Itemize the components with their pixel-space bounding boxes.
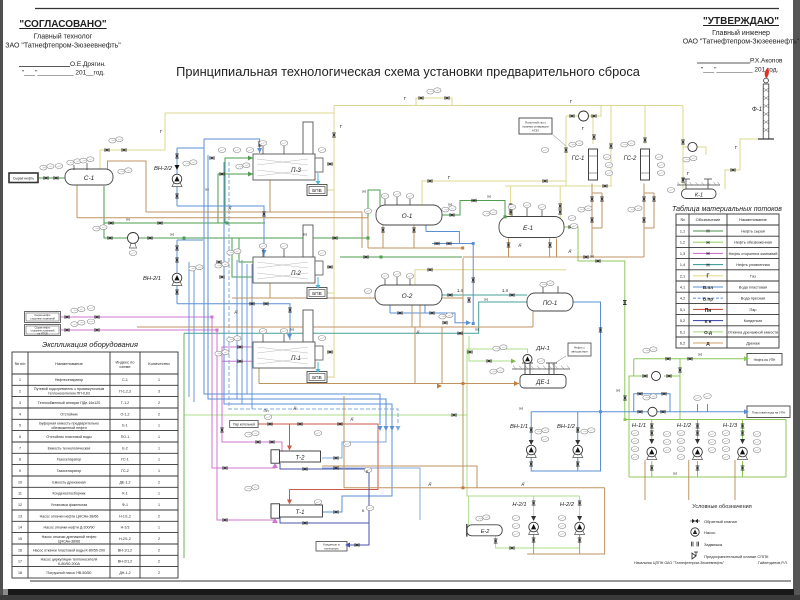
- svg-text:4,1: 4,1: [680, 286, 685, 290]
- node BPV box of P-3: [307, 185, 327, 196]
- node BPV box of P-1: [307, 372, 327, 383]
- svg-text:2: 2: [19, 390, 21, 394]
- svg-text:П-3: П-3: [291, 168, 301, 174]
- wire P-2 oil inlets: [232, 238, 253, 277]
- wire fresh water bus L4: [229, 162, 398, 425]
- svg-text:ГС-1: ГС-1: [121, 458, 129, 462]
- svg-text:Д: Д: [416, 329, 420, 334]
- svg-text:Н: Н: [519, 406, 522, 411]
- svg-text:"УТВЕРЖДАЮ": "УТВЕРЖДАЮ": [703, 16, 779, 27]
- svg-text:на УПСВ: на УПСВ: [37, 332, 48, 335]
- svg-text:Д: Д: [568, 248, 572, 253]
- wire PO-1 trapped oil return: [184, 302, 527, 333]
- svg-text:№: №: [680, 217, 684, 222]
- heat exchanger T-1: [271, 504, 323, 518]
- wire fuel gas riser to heaters: [333, 106, 335, 379]
- svg-text:Н: Н: [484, 297, 487, 302]
- svg-text:Конденсат: Конденсат: [744, 319, 763, 323]
- wire C-1 drain: [76, 185, 78, 218]
- wire box2 to T-1: [61, 330, 276, 521]
- wire main drain riser: [462, 258, 464, 488]
- svg-text:11: 11: [18, 492, 22, 496]
- svg-text:Сырая нефть: Сырая нефть: [13, 177, 34, 181]
- wire drain trunk y218: [77, 218, 368, 248]
- svg-text:Е-2: Е-2: [481, 529, 490, 535]
- svg-text:6: 6: [19, 435, 21, 439]
- wire gas header B: [100, 113, 334, 150]
- svg-text:1.п: 1.п: [502, 288, 509, 293]
- wire heater water bus L2: [208, 155, 386, 425]
- svg-text:ВН-1/2: ВН-1/2: [557, 424, 576, 430]
- wire E-1 drains: [463, 238, 644, 257]
- svg-text:1,3: 1,3: [680, 252, 685, 256]
- svg-text:Н: Н: [590, 254, 593, 259]
- svg-text:Н-1/1: Н-1/1: [632, 423, 646, 429]
- svg-text:О-1: О-1: [402, 213, 413, 220]
- svg-text:обезвоженной нефти: обезвоженной нефти: [51, 426, 86, 430]
- svg-text:Принципиальная технологическая: Принципиальная технологическая схема уст…: [176, 64, 641, 79]
- svg-text:18: 18: [18, 571, 22, 575]
- svg-text:Насос откачки нефти Д-200/90: Насос откачки нефти Д-200/90: [44, 526, 95, 530]
- svg-text:Р.Х.Акопов: Р.Х.Акопов: [750, 58, 783, 65]
- svg-text:2: 2: [158, 560, 160, 564]
- svg-text:Н-1/3: Н-1/3: [121, 526, 130, 530]
- svg-text:Т-1,2: Т-1,2: [121, 401, 129, 405]
- svg-text:5,1: 5,1: [680, 308, 685, 312]
- wire C-1 gas offtake: [99, 150, 101, 171]
- wire meter bypass loop: [634, 394, 670, 412]
- svg-text:Насос откачки нефти ЦНСАн-38/6: Насос откачки нефти ЦНСАн-38/66: [40, 514, 99, 518]
- svg-text:теплоносителем ПП-0,63: теплоносителем ПП-0,63: [48, 392, 90, 396]
- svg-text:Г: Г: [707, 274, 710, 280]
- svg-text:Н: Н: [448, 202, 451, 207]
- stream sample lines: [693, 231, 723, 343]
- tank E-2: [467, 525, 502, 536]
- legend gate valve: [692, 542, 699, 547]
- wire P-3 drain: [269, 180, 271, 212]
- wire O-2 water out: [390, 305, 470, 323]
- svg-text:Ф-1: Ф-1: [752, 107, 762, 113]
- nozzle stems: [74, 146, 558, 342]
- wire N-2 suction drops: [534, 496, 580, 520]
- wire VN-2/1 top link: [177, 239, 203, 241]
- svg-text:Таблица материальных потоков: Таблица материальных потоков: [672, 205, 782, 213]
- wire trapped oil drop: [183, 333, 185, 558]
- svg-text:1: 1: [158, 458, 160, 462]
- settler O-2: [375, 285, 442, 305]
- wire oil line under O-1: [340, 256, 462, 258]
- svg-text:Отстойник: Отстойник: [60, 412, 78, 416]
- legend pump: [691, 528, 699, 536]
- wire VN-1 discharge: [531, 412, 600, 471]
- svg-text:Насос: Насос: [704, 530, 715, 535]
- gas separator GS-1: [589, 149, 598, 180]
- wire T-2 outlet riser to P-1: [222, 347, 282, 451]
- svg-text:О-1,2: О-1,2: [121, 412, 130, 416]
- wire DN-1 suction: [469, 336, 511, 361]
- svg-text:Н-1/2: Н-1/2: [677, 423, 692, 429]
- wire oil to UPN line: [634, 358, 744, 360]
- svg-text:Вода пресная: Вода пресная: [741, 297, 765, 301]
- wire VN-2/2 circulation: [176, 148, 178, 206]
- wire O-1 gas: [415, 181, 566, 285]
- svg-text:Д: Д: [234, 309, 238, 314]
- svg-text:1.п: 1.п: [457, 288, 464, 293]
- pump N-1/1: [647, 447, 657, 459]
- svg-text:автоцистерн: автоцистерн: [571, 350, 588, 354]
- wire gas stub to BPV blocks: [327, 190, 334, 377]
- wire E-2 feed: [468, 496, 470, 525]
- svg-text:Емкость технологическая: Емкость технологическая: [48, 446, 91, 450]
- wire N-2 bottom stubs: [534, 534, 580, 548]
- valves on vertical runs: [175, 133, 744, 543]
- svg-text:Д: Д: [518, 242, 522, 247]
- svg-text:Пн: Пн: [263, 408, 268, 413]
- svg-text:12: 12: [18, 503, 22, 507]
- small grey D drain labels: [228, 205, 572, 486]
- wire P-1 teplo feed: [177, 300, 290, 340]
- wire N-1 suction manifold: [625, 420, 786, 478]
- wire O-1 water out: [426, 224, 473, 324]
- node oil to UPN box: [747, 354, 782, 366]
- header right approval block: [683, 16, 800, 74]
- svg-text:ВН-1/1: ВН-1/1: [510, 424, 528, 430]
- wire steam drop T-2: [289, 424, 291, 446]
- svg-text:Предохранительный клапан СППК: Предохранительный клапан СППК: [704, 554, 769, 559]
- svg-text:Н-2/1,2: Н-2/1,2: [119, 537, 131, 541]
- svg-text:15: 15: [18, 537, 22, 541]
- svg-text:БПВ: БПВ: [312, 291, 321, 296]
- svg-text:ДЕ-1,2: ДЕ-1,2: [119, 480, 130, 484]
- svg-text:2,1: 2,1: [680, 274, 685, 278]
- svg-text:№ п/п: № п/п: [15, 361, 26, 366]
- svg-text:1,1: 1,1: [680, 230, 685, 234]
- wire steam main: [258, 424, 378, 490]
- svg-text:6,2: 6,2: [680, 342, 685, 346]
- wire gas to K-1: [682, 106, 684, 190]
- wire N-1 pump drains: [645, 460, 735, 500]
- pump N-1/3: [738, 447, 748, 459]
- svg-text:1: 1: [158, 492, 160, 496]
- svg-text:Е-2: Е-2: [122, 446, 128, 450]
- svg-text:Н: Н: [698, 352, 701, 357]
- flare stack F-1: [752, 68, 774, 140]
- wire box1 to T-2: [61, 317, 276, 468]
- svg-text:ПО-1: ПО-1: [543, 301, 557, 307]
- pump VN-1/1: [526, 445, 536, 457]
- node truck unload box: [568, 343, 591, 356]
- wire P-3 return: [177, 206, 264, 257]
- wire E-2 bottom out: [496, 536, 580, 548]
- svg-text:Д: Д: [428, 481, 432, 486]
- svg-text:ГС-2: ГС-2: [121, 469, 129, 473]
- buffer tank E-1: [499, 217, 564, 238]
- legend relief valve SPPK: [692, 552, 698, 559]
- svg-text:Наименование: Наименование: [739, 217, 768, 222]
- wire VN-2/1 circulation: [176, 240, 178, 300]
- svg-text:Газосепаратор: Газосепаратор: [57, 458, 82, 462]
- svg-text:ДЕ-1: ДЕ-1: [535, 380, 550, 386]
- svg-text:Насос откачки дренажной нефти: Насос откачки дренажной нефти: [42, 535, 97, 539]
- pump N-1/2: [693, 447, 703, 459]
- svg-text:1: 1: [158, 378, 160, 382]
- svg-text:Нефть обезвоженная: Нефть обезвоженная: [734, 241, 772, 245]
- svg-text:7: 7: [19, 446, 21, 450]
- wire C-1 oil out: [104, 186, 380, 238]
- svg-text:Погружной насос НВ-50/50: Погружной насос НВ-50/50: [47, 571, 92, 575]
- svg-text:ДН-1,2: ДН-1,2: [119, 571, 130, 575]
- valves on horizontal runs: [44, 96, 735, 550]
- pump water meter: [648, 407, 657, 416]
- svg-text:1: 1: [158, 526, 160, 530]
- pump N-2/2: [575, 522, 585, 534]
- svg-text:Наименование: Наименование: [55, 361, 84, 366]
- svg-text:1: 1: [19, 378, 21, 382]
- heater P-2: [253, 225, 323, 283]
- svg-text:П-1: П-1: [291, 356, 301, 362]
- wire heater P-3 outlet: [327, 164, 334, 352]
- wire O-2 to PO-1: [442, 294, 527, 296]
- wire PO-1 water out: [573, 302, 601, 412]
- svg-text:Обозначение: Обозначение: [696, 217, 722, 222]
- svg-text:4,2: 4,2: [680, 297, 685, 301]
- svg-text:Д: Д: [293, 405, 297, 410]
- svg-text:17: 17: [18, 560, 22, 564]
- wire drain trunk y212: [108, 161, 363, 248]
- wire VN-1 suction manifold: [531, 411, 600, 413]
- svg-text:Н-2/2: Н-2/2: [560, 502, 575, 508]
- settler O-1: [376, 205, 442, 225]
- pump VN-2/1: [172, 273, 182, 285]
- pump N-2/1: [529, 522, 539, 534]
- svg-text:Количество: Количество: [148, 361, 170, 366]
- svg-text:Ф-1: Ф-1: [122, 503, 128, 507]
- svg-text:К-80/50-200А: К-80/50-200А: [58, 562, 80, 566]
- wire gas branch to compressor: [683, 147, 706, 155]
- pump VN-1/2: [573, 445, 583, 457]
- wire T-1 water feed: [322, 425, 392, 512]
- svg-text:Начальник ЦППН ОАО "Татнефтеп: Начальник ЦППН ОАО "Татнефтепром-Зюзеевн…: [634, 561, 725, 565]
- wire T-2 water feed: [322, 425, 386, 458]
- node condensate to boiler box: [316, 542, 347, 552]
- svg-text:Н: Н: [126, 217, 129, 222]
- svg-text:1: 1: [158, 446, 160, 450]
- svg-text:9: 9: [19, 469, 21, 473]
- svg-text:13: 13: [18, 514, 22, 518]
- svg-text:"СОГЛАСОВАНО": "СОГЛАСОВАНО": [19, 19, 107, 30]
- drain tank DE-1: [512, 363, 570, 388]
- svg-text:Н: Н: [487, 194, 490, 199]
- svg-text:Е-1: Е-1: [122, 424, 128, 428]
- svg-text:Пар: Пар: [750, 308, 757, 312]
- svg-text:Отстойник пластовой воды: Отстойник пластовой воды: [46, 435, 92, 439]
- svg-text:Дренаж: Дренаж: [746, 342, 760, 346]
- wire GS-1 gas top: [566, 106, 611, 187]
- wire T drain: [322, 466, 477, 488]
- svg-text:2: 2: [158, 412, 160, 416]
- material streams table: [676, 214, 779, 348]
- svg-text:сторонних компаний: сторонних компаний: [30, 316, 55, 320]
- svg-text:1: 1: [158, 503, 160, 507]
- separator C-1: [65, 169, 113, 185]
- svg-text:Н: Н: [205, 187, 208, 192]
- svg-text:Е-1: Е-1: [523, 225, 534, 232]
- svg-text:Пар котельной: Пар котельной: [233, 422, 255, 426]
- pump oil blower: [128, 233, 139, 249]
- wire P-2 drain: [232, 283, 463, 298]
- svg-text:1: 1: [158, 424, 160, 428]
- svg-text:1,2: 1,2: [680, 241, 685, 245]
- node raw oil feed box: [9, 173, 38, 183]
- svg-text:П-2: П-2: [291, 271, 301, 277]
- svg-text:Насос циркуляции теплоносителя: Насос циркуляции теплоносителя: [41, 557, 98, 561]
- svg-text:Емкость дренажная: Емкость дренажная: [52, 480, 85, 484]
- svg-text:6,1: 6,1: [680, 330, 685, 334]
- pump gas compressor: [688, 142, 697, 151]
- svg-text:Пластовая вода на УПН: Пластовая вода на УПН: [752, 410, 786, 414]
- svg-text:2: 2: [158, 548, 160, 552]
- node water to UPN box: [747, 406, 790, 418]
- pump VN-2/2: [172, 174, 182, 186]
- svg-text:Главный инженер: Главный инженер: [712, 29, 770, 37]
- wire VN-1 suction drops: [531, 412, 578, 444]
- svg-text:ГС-2: ГС-2: [624, 156, 637, 162]
- svg-text:Гайнетдинов Р.Л.: Гайнетдинов Р.Л.: [758, 561, 788, 565]
- wire steam drop T-1: [289, 490, 291, 501]
- svg-text:4: 4: [19, 412, 21, 416]
- svg-text:1: 1: [158, 469, 160, 473]
- svg-text:ПО-1: ПО-1: [121, 435, 130, 439]
- condensate drum K-1: [677, 179, 720, 199]
- svg-text:Д: Д: [521, 481, 525, 486]
- svg-text:Н: Н: [290, 327, 293, 332]
- svg-text:К-1: К-1: [695, 193, 703, 199]
- svg-text:ЦНСАн-38/66: ЦНСАн-38/66: [58, 539, 80, 543]
- wire VN-2/2 to P-3: [177, 139, 260, 153]
- svg-text:Обратный клапан: Обратный клапан: [704, 519, 737, 524]
- wire N-1 pump discharge drops: [652, 461, 743, 477]
- wire E-1 gas: [505, 186, 612, 220]
- svg-text:Н: Н: [673, 471, 676, 476]
- svg-text:Сырая нефть: Сырая нефть: [34, 313, 51, 317]
- svg-text:Экспликация оборудования: Экспликация оборудования: [42, 340, 138, 349]
- svg-text:Газ: Газ: [750, 274, 756, 278]
- svg-text:Задвижка: Задвижка: [704, 542, 723, 547]
- svg-text:14: 14: [18, 526, 22, 530]
- svg-text:1: 1: [158, 435, 160, 439]
- node steam from boiler box: [230, 421, 258, 428]
- wire K-1 to flare: [725, 139, 762, 189]
- svg-text:2: 2: [158, 480, 160, 484]
- wire instrument stubs: [698, 404, 708, 412]
- wire GS-1 drain: [592, 184, 602, 258]
- svg-text:Буферная емкость предварительн: Буферная емкость предварительно: [39, 421, 99, 425]
- svg-text:2: 2: [158, 571, 160, 575]
- svg-text:Нефть на УПН: Нефть на УПН: [754, 358, 776, 362]
- wire E-1 out to N-1 riser: [564, 227, 625, 420]
- BOTTOM BLACK BAR: [8, 589, 794, 600]
- pump gas blower: [579, 111, 589, 121]
- svg-text:5: 5: [19, 424, 21, 428]
- svg-text:ВН-1/1,2: ВН-1/1,2: [118, 548, 132, 552]
- svg-text:Т-2: Т-2: [296, 456, 306, 462]
- svg-text:БПВ: БПВ: [312, 375, 321, 380]
- equipment list table: [12, 352, 178, 578]
- svg-text:котельную: котельную: [324, 547, 339, 551]
- svg-text:2: 2: [158, 537, 160, 541]
- wire extra teplo bus lines: [189, 260, 252, 409]
- svg-text:Главный технолог: Главный технолог: [34, 33, 93, 41]
- BPV cyan feeds: [317, 173, 319, 369]
- svg-text:ОАО "Татнефтепром-Зюзеевнефть": ОАО "Татнефтепром-Зюзеевнефть": [683, 39, 800, 46]
- wire GS-2 drain: [644, 184, 654, 258]
- svg-text:Д: Д: [228, 205, 232, 210]
- wire GS-2 gas top: [644, 106, 646, 145]
- pump oil meter: [652, 372, 661, 381]
- svg-text:Условные обозначения: Условные обозначения: [692, 504, 751, 510]
- svg-text:О.д: О.д: [704, 330, 712, 335]
- svg-text:Теплообменный аппарат ПДн-16х1: Теплообменный аппарат ПДн-16х120: [38, 401, 101, 405]
- wire heater water bus L3: [224, 162, 392, 425]
- svg-text:В.пр: В.пр: [703, 296, 713, 301]
- wire O-1 drains: [368, 224, 463, 248]
- wire N-1 pump suction drops: [652, 420, 743, 444]
- svg-text:ДН-1: ДН-1: [535, 346, 549, 352]
- top frame line: [35, 8, 779, 10]
- svg-text:Д: Д: [350, 416, 354, 421]
- svg-text:ГС-1: ГС-1: [572, 156, 585, 162]
- water settler PO-1: [527, 293, 573, 311]
- pump DN-1 submersible: [523, 355, 532, 364]
- svg-text:Н: Н: [616, 388, 619, 393]
- svg-text:"___"__________ 201__год.: "___"__________ 201__год.: [22, 70, 105, 77]
- svg-text:Насос откачки пластовой воды К: Насос откачки пластовой воды К-80/50-200: [33, 548, 105, 552]
- svg-text:Нефть сырая: Нефть сырая: [741, 230, 765, 234]
- wire oil branch to heaters bus: [104, 222, 265, 224]
- svg-text:Т-1: Т-1: [296, 510, 305, 516]
- wire heater water bus L1: [204, 139, 380, 425]
- LEFT EDGE STRIP: [0, 0, 3, 600]
- svg-text:В.пл: В.пл: [703, 285, 713, 290]
- svg-text:Н-1/1,2: Н-1/1,2: [119, 514, 131, 518]
- wire discharge riser with meter loop: [629, 359, 680, 477]
- node third-party oil box 2: [25, 325, 61, 336]
- svg-text:Установка факельная: Установка факельная: [51, 503, 87, 507]
- svg-text:Н: Н: [303, 232, 306, 237]
- svg-text:Нефтесепаратор: Нефтесепаратор: [55, 378, 83, 382]
- svg-text:Нефть уловленная: Нефть уловленная: [736, 263, 769, 267]
- svg-text:О.Е.Дрягин.: О.Е.Дрягин.: [70, 61, 106, 68]
- svg-text:2: 2: [158, 514, 160, 518]
- wire drain trunk bottom: [344, 396, 605, 488]
- svg-text:АГЗУ: АГЗУ: [532, 129, 539, 133]
- svg-text:ВН-2/2: ВН-2/2: [154, 166, 173, 172]
- svg-text:К н: К н: [705, 319, 712, 324]
- node third-party oil box 1: [25, 312, 61, 323]
- svg-text:Конденсатосборник: Конденсатосборник: [53, 492, 86, 496]
- svg-text:3: 3: [19, 401, 21, 405]
- svg-text:Н: Н: [170, 232, 173, 237]
- line letter labels: [126, 96, 737, 513]
- wire gas header A: [334, 98, 683, 106]
- svg-text:ВН-2/1,2: ВН-2/1,2: [118, 560, 132, 564]
- svg-text:8: 8: [19, 458, 21, 462]
- svg-text:К-1: К-1: [122, 492, 127, 496]
- wire feed to C-1: [38, 177, 65, 179]
- wire N-2 drain loop: [527, 488, 605, 554]
- heater P-3: [253, 122, 323, 180]
- svg-text:Н-1/3: Н-1/3: [723, 423, 738, 429]
